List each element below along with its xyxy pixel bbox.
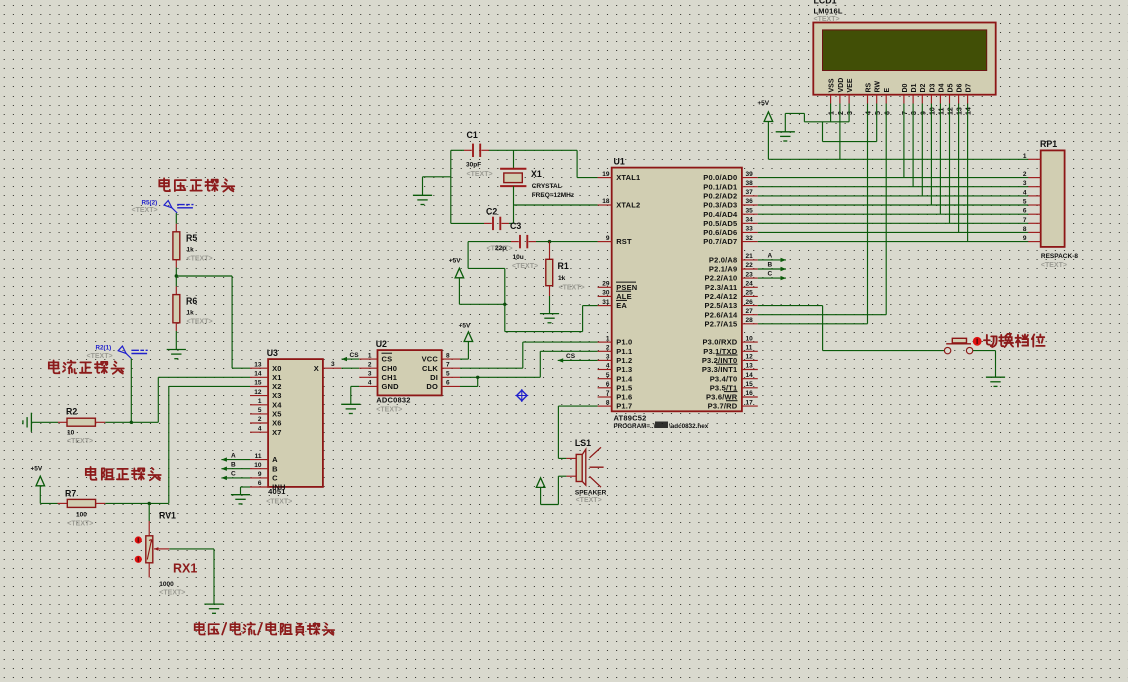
svg-text:C2: C2 bbox=[486, 207, 497, 217]
wire RST net bbox=[536, 241, 598, 243]
wire U2 CLK to U1 P1.0 bbox=[460, 342, 598, 368]
U3 part number 4051 bbox=[268, 487, 286, 496]
svg-text:7: 7 bbox=[902, 111, 909, 115]
svg-text:C3: C3 bbox=[510, 221, 521, 231]
R1 ref label bbox=[558, 261, 569, 271]
svg-text:X4: X4 bbox=[272, 400, 282, 409]
X1 ref label bbox=[531, 169, 542, 179]
svg-text:RS: RS bbox=[865, 82, 872, 92]
wire P1.7 to speaker bbox=[558, 406, 597, 458]
svg-text:10: 10 bbox=[67, 430, 75, 437]
svg-text:D2: D2 bbox=[920, 83, 927, 92]
resistor R7 bbox=[40, 486, 169, 508]
svg-text:<TEXT>: <TEXT> bbox=[559, 285, 585, 292]
ground (U2) bbox=[341, 404, 360, 413]
capacitor C3 bbox=[468, 235, 536, 248]
svg-text:P3.4/T0: P3.4/T0 bbox=[710, 374, 738, 383]
svg-text:CRYSTAL: CRYSTAL bbox=[532, 183, 562, 190]
svg-text:5: 5 bbox=[446, 371, 450, 378]
ground (crystal caps) bbox=[413, 195, 432, 204]
wire P2.6 to LCD E (pin6) bbox=[758, 104, 886, 315]
LCD1 part number LM016L bbox=[814, 7, 843, 16]
RP1 pin stubs bbox=[1028, 159, 1041, 241]
svg-text:R5(2): R5(2) bbox=[142, 200, 158, 207]
svg-text:14: 14 bbox=[254, 371, 262, 378]
svg-text:P3.3/INT1: P3.3/INT1 bbox=[702, 365, 738, 374]
svg-text:P1.6: P1.6 bbox=[616, 393, 632, 402]
LCD pin stubs bbox=[831, 95, 968, 104]
U1 pin stubs right bbox=[742, 178, 758, 407]
probe R2(1) &lt;TEXT&gt; bbox=[87, 353, 113, 360]
svg-text:VEE: VEE bbox=[847, 78, 854, 92]
svg-text:LS1: LS1 bbox=[575, 438, 591, 448]
wire R7 node to U3 X2 bbox=[169, 386, 250, 503]
svg-text:R6: R6 bbox=[186, 296, 197, 306]
ADC U2 ADC0832 body bbox=[376, 339, 442, 395]
svg-text:30pF: 30pF bbox=[466, 162, 481, 169]
svg-text:33: 33 bbox=[746, 226, 754, 233]
C1 &lt;TEXT&gt; bbox=[467, 171, 493, 178]
svg-text:RX1: RX1 bbox=[173, 562, 197, 576]
svg-text:R2(1): R2(1) bbox=[96, 345, 112, 352]
svg-text:SPEAKER: SPEAKER bbox=[575, 490, 607, 497]
wire P2.5 to push button bbox=[758, 306, 944, 351]
C1 value 30pF bbox=[466, 162, 481, 169]
svg-text:<TEXT>: <TEXT> bbox=[467, 171, 493, 178]
svg-text:9: 9 bbox=[920, 111, 927, 115]
ground (R2 left, rotated) bbox=[23, 413, 32, 432]
svg-text:28: 28 bbox=[746, 317, 754, 324]
svg-text:34: 34 bbox=[746, 217, 754, 224]
svg-text:B: B bbox=[768, 262, 773, 269]
svg-text:10: 10 bbox=[746, 335, 754, 342]
U1 PROGRAM property label bbox=[614, 422, 709, 431]
resistor R5 bbox=[173, 224, 180, 276]
svg-text:31: 31 bbox=[602, 299, 610, 306]
resistor pack RP1 RESPACK-8 body bbox=[1040, 139, 1065, 247]
svg-text:3: 3 bbox=[606, 354, 610, 361]
U3 pin stub right (X) bbox=[323, 367, 341, 369]
svg-text:U3: U3 bbox=[267, 348, 278, 358]
label 电压/电流/电阻负探头 (negative probe) bbox=[195, 622, 335, 635]
net label CS (U1 P1.2 side) bbox=[558, 353, 598, 363]
svg-text:P2.5/A13: P2.5/A13 bbox=[705, 301, 738, 310]
svg-text:11: 11 bbox=[746, 345, 753, 352]
net label B (U1 P2.1) bbox=[758, 262, 786, 272]
R6 &lt;TEXT&gt; bbox=[187, 319, 213, 326]
C2 ref label bbox=[486, 207, 497, 217]
svg-text:5: 5 bbox=[875, 111, 882, 115]
RV1 ref label bbox=[159, 511, 176, 521]
svg-text:R2: R2 bbox=[66, 407, 77, 417]
svg-text:25: 25 bbox=[746, 290, 754, 297]
power +5V terminal (U2 VCC) bbox=[459, 323, 473, 342]
svg-text:15: 15 bbox=[746, 381, 754, 388]
svg-text:X0: X0 bbox=[272, 364, 282, 373]
power +5V terminal (reset circuit) bbox=[449, 258, 464, 278]
wire U3 INH to ground bbox=[241, 487, 251, 495]
capacitor C2 bbox=[451, 217, 514, 230]
svg-text:P3.7/RD: P3.7/RD bbox=[708, 402, 738, 411]
R7 value 100 bbox=[76, 512, 87, 519]
R2 ref label bbox=[66, 407, 77, 417]
junction RST/R1 bbox=[548, 240, 551, 243]
potentiometer RV1 (RX1) bbox=[146, 503, 170, 577]
C2 &lt;TEXT&gt; + value 22p overlap bbox=[487, 245, 513, 253]
svg-text:AT89C52: AT89C52 bbox=[614, 414, 647, 423]
svg-text:<TEXT>: <TEXT> bbox=[132, 207, 158, 214]
svg-text:6: 6 bbox=[884, 111, 891, 115]
power +5V terminal (speaker) bbox=[536, 478, 545, 488]
svg-text:GND: GND bbox=[382, 382, 400, 391]
svg-text:2: 2 bbox=[368, 361, 372, 368]
R2 &lt;TEXT&gt; bbox=[67, 438, 93, 445]
ground (RV1 wiper) bbox=[204, 604, 223, 613]
svg-text:14: 14 bbox=[966, 107, 973, 115]
svg-text:PROGRAM=..\: PROGRAM=..\ bbox=[614, 423, 656, 430]
svg-text:39: 39 bbox=[746, 171, 754, 178]
wire +5V rail to RP1 pin1 bbox=[768, 122, 1028, 160]
svg-text:RP1: RP1 bbox=[1040, 139, 1057, 149]
op-amp U1 AT89C52 microcontroller body bbox=[612, 157, 742, 412]
R7 ref label bbox=[65, 489, 76, 499]
wire U2 GND to ground bbox=[351, 386, 359, 404]
C1 ref label bbox=[467, 130, 478, 140]
wire probe to R5 bbox=[175, 213, 177, 224]
svg-text:4: 4 bbox=[258, 425, 262, 432]
svg-text:CS: CS bbox=[350, 352, 360, 359]
U2 part number ADC0832 bbox=[376, 396, 410, 405]
svg-text:10: 10 bbox=[930, 107, 937, 115]
svg-text:<TEXT>: <TEXT> bbox=[159, 590, 185, 597]
svg-text:21: 21 bbox=[746, 253, 754, 260]
svg-text:27: 27 bbox=[746, 308, 754, 315]
svg-text:D5: D5 bbox=[947, 83, 954, 92]
svg-text:100: 100 bbox=[76, 512, 87, 519]
svg-text:P0.7/AD7: P0.7/AD7 bbox=[703, 237, 737, 246]
capacitor C1 bbox=[451, 144, 514, 157]
svg-text:1k: 1k bbox=[558, 275, 566, 282]
svg-text:U1: U1 bbox=[614, 157, 625, 167]
svg-text:11: 11 bbox=[939, 107, 946, 115]
svg-text:P2.2/A10: P2.2/A10 bbox=[705, 274, 738, 283]
svg-text:D3: D3 bbox=[929, 83, 936, 92]
svg-text:P2.7/A15: P2.7/A15 bbox=[705, 319, 738, 328]
svg-text:32: 32 bbox=[746, 235, 754, 242]
svg-text:FREQ=12MHz: FREQ=12MHz bbox=[532, 192, 575, 199]
svg-text:P3.0/RXD: P3.0/RXD bbox=[702, 338, 737, 347]
wire U2 DO tied to DI bbox=[460, 377, 478, 386]
svg-text:4051: 4051 bbox=[268, 487, 286, 496]
wire LCD D0-D7 verticals down to P0 rows bbox=[904, 104, 968, 242]
svg-text:12: 12 bbox=[948, 107, 955, 115]
U2 pin numbers bbox=[368, 352, 450, 386]
svg-text:DI: DI bbox=[430, 373, 438, 382]
svg-text:2: 2 bbox=[606, 345, 610, 352]
svg-text:12: 12 bbox=[254, 389, 262, 396]
svg-text:<TEXT>: <TEXT> bbox=[512, 263, 538, 270]
svg-text:D6: D6 bbox=[957, 83, 964, 92]
RX1 value 1000 bbox=[159, 581, 174, 588]
svg-text:P0.4/AD4: P0.4/AD4 bbox=[703, 210, 738, 219]
RX1 label (red) bbox=[173, 562, 197, 576]
svg-text:D0: D0 bbox=[902, 83, 909, 92]
svg-text:P2.0/A8: P2.0/A8 bbox=[709, 256, 738, 265]
svg-text:<TEXT>: <TEXT> bbox=[1041, 262, 1067, 269]
svg-text:P0.6/AD6: P0.6/AD6 bbox=[703, 228, 737, 237]
svg-text:P1.7: P1.7 bbox=[616, 402, 632, 411]
crystal X1 bbox=[500, 150, 526, 223]
svg-text:+5V: +5V bbox=[449, 258, 461, 265]
R7 &lt;TEXT&gt; bbox=[67, 521, 93, 528]
svg-text:ALE: ALE bbox=[616, 292, 632, 301]
svg-text:<TEXT>: <TEXT> bbox=[266, 499, 292, 506]
wire LCD ground net: VSS pin1, VEE pin3, RW pin5 bbox=[785, 104, 876, 142]
svg-text:26: 26 bbox=[746, 299, 754, 306]
svg-text:P0.0/AD0: P0.0/AD0 bbox=[703, 173, 737, 182]
svg-text:9: 9 bbox=[258, 471, 262, 478]
svg-text:29: 29 bbox=[602, 281, 610, 288]
svg-text:X1: X1 bbox=[531, 169, 542, 179]
U2 &lt;TEXT&gt; bbox=[376, 407, 402, 414]
wire speaker to +5V bbox=[541, 476, 567, 504]
R6 value 1k bbox=[187, 310, 195, 317]
svg-text:P0.3/AD3: P0.3/AD3 bbox=[703, 201, 737, 210]
svg-text:37: 37 bbox=[746, 189, 754, 196]
svg-text:22p: 22p bbox=[495, 245, 506, 252]
wire U2 DI to U1 P1.1 bbox=[460, 351, 598, 377]
svg-text:4: 4 bbox=[368, 380, 372, 387]
LS1 sound wave lines bbox=[590, 447, 604, 487]
svg-text:<TEXT>: <TEXT> bbox=[87, 353, 113, 360]
svg-text:DO: DO bbox=[426, 382, 438, 391]
svg-text:E: E bbox=[884, 88, 891, 93]
svg-text:16: 16 bbox=[746, 390, 754, 397]
svg-text:X3: X3 bbox=[272, 391, 282, 400]
svg-text:B: B bbox=[231, 462, 236, 469]
svg-text:+5V: +5V bbox=[31, 466, 43, 473]
svg-text:P2.1/A9: P2.1/A9 bbox=[709, 265, 738, 274]
svg-text:XTAL1: XTAL1 bbox=[616, 173, 640, 182]
svg-text:4: 4 bbox=[866, 111, 873, 115]
U1 pin stubs left bbox=[598, 178, 612, 407]
svg-text:1: 1 bbox=[829, 111, 836, 115]
svg-text:1: 1 bbox=[606, 335, 610, 342]
svg-text:CLK: CLK bbox=[422, 364, 438, 373]
svg-text:P1.5: P1.5 bbox=[616, 383, 632, 392]
RP1 value RESPACK-8 bbox=[1041, 253, 1078, 260]
wire C1/C2 left to ground bbox=[423, 150, 451, 223]
svg-text:P1.3: P1.3 bbox=[616, 365, 632, 374]
svg-text:P0.1/AD1: P0.1/AD1 bbox=[703, 182, 737, 191]
svg-text:D1: D1 bbox=[911, 83, 918, 92]
svg-text:<TEXT>: <TEXT> bbox=[376, 407, 402, 414]
LCD1 LM016L display body bbox=[813, 23, 995, 95]
svg-text:X: X bbox=[314, 364, 319, 373]
svg-text:CS: CS bbox=[382, 355, 393, 364]
svg-text:X1: X1 bbox=[272, 373, 282, 382]
svg-text:C: C bbox=[272, 474, 278, 483]
junction probe/R2 bbox=[130, 421, 133, 424]
U3 pin numbers bbox=[254, 361, 335, 487]
U1 part number label bbox=[614, 414, 647, 423]
svg-text:P2.3/A11: P2.3/A11 bbox=[705, 283, 737, 292]
svg-text:ADC0832: ADC0832 bbox=[376, 396, 410, 405]
svg-text:P0.2/AD2: P0.2/AD2 bbox=[703, 192, 737, 201]
LS1 value SPEAKER bbox=[575, 490, 607, 497]
svg-text:22: 22 bbox=[746, 262, 754, 269]
svg-text:P2.6/A14: P2.6/A14 bbox=[705, 310, 738, 319]
R1 &lt;TEXT&gt; bbox=[559, 285, 585, 292]
svg-text:VCC: VCC bbox=[422, 355, 439, 364]
svg-text:15: 15 bbox=[254, 380, 262, 387]
LCD1 ref label (clipped at top) bbox=[814, 0, 837, 6]
svg-text:1k: 1k bbox=[187, 247, 195, 254]
net label C (U3) bbox=[221, 471, 250, 480]
C3 ref label bbox=[510, 221, 521, 231]
svg-text:LM016L: LM016L bbox=[814, 7, 843, 16]
svg-text:6: 6 bbox=[446, 380, 450, 387]
net label A (U1 P2.0) bbox=[758, 252, 786, 262]
U1 pin numbers left bbox=[602, 171, 610, 406]
X1 value CRYSTAL bbox=[532, 183, 562, 190]
svg-text:A: A bbox=[768, 252, 773, 259]
R5 ref label bbox=[186, 233, 197, 243]
wire bus P0.0-P0.7 rows from U1 to RP1 bbox=[758, 178, 1028, 242]
svg-text:EA: EA bbox=[616, 301, 627, 310]
svg-text:6: 6 bbox=[258, 480, 262, 487]
button red actuator dot bbox=[973, 337, 982, 346]
net label B (U3) bbox=[221, 462, 250, 471]
svg-text:5: 5 bbox=[606, 372, 610, 379]
svg-text:P1.1: P1.1 bbox=[616, 347, 632, 356]
C3 value 10u bbox=[513, 254, 524, 261]
junction R7/RV1 bbox=[148, 502, 151, 505]
LS1 ref label bbox=[575, 438, 591, 448]
svg-text:X5: X5 bbox=[272, 410, 282, 419]
svg-text:12: 12 bbox=[746, 354, 754, 361]
svg-text:3: 3 bbox=[331, 361, 335, 368]
svg-text:D7: D7 bbox=[966, 83, 973, 92]
svg-text:13: 13 bbox=[746, 363, 754, 370]
svg-text:RW: RW bbox=[875, 81, 882, 93]
svg-text:P2.4/A12: P2.4/A12 bbox=[705, 292, 738, 301]
svg-text:11: 11 bbox=[255, 453, 262, 460]
RV1 red terminal dots bbox=[135, 536, 142, 563]
svg-text:<TEXT>: <TEXT> bbox=[187, 319, 213, 326]
wire XTAL2 net bbox=[514, 204, 598, 206]
svg-text:D4: D4 bbox=[938, 83, 945, 92]
svg-text:9: 9 bbox=[606, 235, 610, 242]
junction R5/R6/X0 bbox=[175, 274, 178, 277]
svg-text:X6: X6 bbox=[272, 419, 282, 428]
svg-text:6: 6 bbox=[606, 381, 610, 388]
svg-text:RESPACK-8: RESPACK-8 bbox=[1041, 253, 1078, 260]
wire R2 to U3 X1 bbox=[105, 377, 250, 422]
svg-text:8: 8 bbox=[446, 352, 450, 359]
X1 property FREQ=12MHz bbox=[532, 192, 575, 199]
svg-text:19: 19 bbox=[602, 171, 610, 178]
svg-text:A: A bbox=[272, 455, 278, 464]
wire probe R2(1) down to R2 net bbox=[130, 359, 132, 423]
U3 &lt;TEXT&gt; bbox=[266, 499, 292, 506]
current probe R2(1) bbox=[96, 345, 148, 359]
svg-text:23: 23 bbox=[746, 271, 754, 278]
label 电流正探头 (current positive probe) bbox=[49, 360, 124, 373]
wire XTAL1 net bbox=[514, 150, 598, 177]
svg-text:10u: 10u bbox=[513, 254, 524, 261]
wire U2 VCC to +5V bbox=[460, 342, 468, 360]
svg-text:P1.2: P1.2 bbox=[616, 356, 632, 365]
LCD1 &lt;TEXT&gt; property bbox=[814, 16, 840, 23]
svg-text:P1.4: P1.4 bbox=[616, 374, 633, 383]
label 电压正探头 (voltage positive probe) bbox=[159, 178, 234, 191]
resistor R1 bbox=[546, 242, 553, 314]
LS1 &lt;TEXT&gt; bbox=[576, 497, 602, 504]
svg-text:3: 3 bbox=[368, 371, 372, 378]
svg-text:CH1: CH1 bbox=[382, 373, 398, 382]
RX1 &lt;TEXT&gt; bbox=[159, 590, 185, 597]
wire button to ground bbox=[973, 351, 996, 378]
svg-text:24: 24 bbox=[746, 281, 754, 288]
svg-text:P3.5/T1: P3.5/T1 bbox=[710, 383, 738, 392]
wire RV1 wiper to ground bbox=[169, 549, 214, 604]
label 切换档位 (switch gear) bbox=[984, 334, 1045, 347]
svg-text:+5V: +5V bbox=[459, 323, 471, 330]
R5 value 1k bbox=[187, 247, 195, 254]
svg-text:13: 13 bbox=[254, 361, 262, 368]
svg-text:P1.0: P1.0 bbox=[616, 338, 632, 347]
svg-text:X2: X2 bbox=[272, 382, 282, 391]
svg-text:<TEXT>: <TEXT> bbox=[814, 16, 840, 23]
svg-text:<TEXT>: <TEXT> bbox=[187, 256, 213, 263]
svg-text:18: 18 bbox=[602, 198, 610, 205]
R1 value 1k bbox=[558, 275, 566, 282]
ground (R6) bbox=[167, 350, 186, 359]
power +5V terminal (top, near LCD) bbox=[757, 100, 772, 122]
R2 value 10 bbox=[67, 430, 75, 437]
label 电阻正探头 (resistance positive probe) bbox=[86, 467, 161, 480]
svg-text:RV1: RV1 bbox=[159, 511, 176, 521]
svg-text:C: C bbox=[231, 471, 236, 478]
svg-text:1k: 1k bbox=[187, 310, 195, 317]
svg-text:+5V: +5V bbox=[757, 100, 769, 107]
svg-text:U2: U2 bbox=[376, 339, 387, 349]
svg-text:C: C bbox=[768, 271, 773, 278]
svg-text:17: 17 bbox=[746, 399, 754, 406]
svg-text:5: 5 bbox=[258, 407, 262, 414]
speaker LS1 bbox=[566, 449, 585, 485]
svg-text:36: 36 bbox=[746, 198, 754, 205]
origin marker (blue diamond) bbox=[515, 389, 528, 402]
push button (switch) bbox=[944, 338, 972, 354]
svg-text:13: 13 bbox=[957, 107, 964, 115]
net label C (U1 P2.2) bbox=[758, 271, 786, 281]
svg-text:VSS: VSS bbox=[829, 78, 836, 92]
svg-text:\adc0832.hex: \adc0832.hex bbox=[669, 423, 709, 430]
svg-text:3: 3 bbox=[847, 111, 854, 115]
wire LCD VDD (pin2) to +5V rail bbox=[839, 104, 841, 160]
svg-text:CS: CS bbox=[566, 353, 576, 360]
svg-text:8: 8 bbox=[911, 111, 918, 115]
RP1 &lt;TEXT&gt; property bbox=[1041, 262, 1067, 269]
ground (R1) bbox=[540, 314, 559, 323]
svg-text:30: 30 bbox=[602, 290, 610, 297]
svg-text:2: 2 bbox=[838, 111, 845, 115]
resistor R2 bbox=[31, 418, 105, 426]
svg-text:10: 10 bbox=[254, 462, 262, 469]
svg-text:7: 7 bbox=[606, 390, 610, 397]
